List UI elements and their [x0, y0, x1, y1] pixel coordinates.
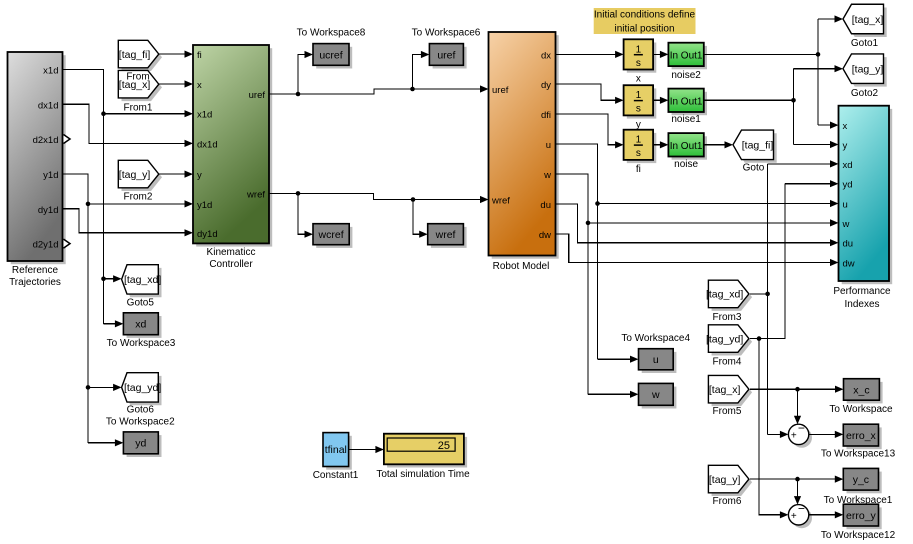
svg-text:dx1d: dx1d	[38, 100, 59, 111]
arrowhead into controller x port	[185, 80, 194, 87]
label From	[126, 71, 149, 82]
from tag From4 [tag_yd]	[706, 325, 752, 356]
arrowhead into Performance Indexes dw port	[830, 259, 839, 266]
label Goto2	[851, 88, 879, 99]
wire y1d from Reference Trajectories (branches to controller y1d, Goto6, To Workspace2)	[63, 174, 187, 443]
svg-text:Robot Model: Robot Model	[493, 261, 550, 272]
label From1	[124, 102, 153, 113]
svg-text:[tag_fi]: [tag_fi]	[119, 49, 151, 61]
svg-text:[tag_xd]: [tag_xd]	[124, 274, 161, 286]
wire yd from From4 (branches to Performance Indexes yd and Sum2 plus input)	[750, 184, 832, 515]
label Kinematicc Controller line1	[207, 247, 256, 258]
label From6	[713, 496, 742, 507]
label Robot Model	[493, 261, 550, 272]
label To Workspace3	[107, 338, 176, 349]
svg-text:w: w	[842, 219, 850, 230]
integrator y	[624, 85, 657, 118]
block Kinematicc Controller	[193, 45, 272, 247]
arrowhead into noise2	[660, 51, 669, 58]
svg-text:w: w	[543, 170, 551, 181]
arrowhead into Robot Model wref port	[480, 196, 489, 203]
subsystem noise2	[668, 43, 707, 70]
svg-text:In Out1: In Out1	[670, 50, 703, 61]
svg-text:xd: xd	[843, 160, 853, 171]
junction w signal	[586, 221, 591, 226]
integrator x	[624, 39, 657, 72]
from tag From6 [tag_y]	[708, 465, 752, 496]
svg-text:1: 1	[636, 44, 642, 55]
svg-text:x1d: x1d	[43, 65, 58, 76]
svg-text:x1d: x1d	[197, 110, 212, 121]
svg-text:dx1d: dx1d	[197, 139, 218, 150]
label Performance Indexes line2	[844, 299, 879, 310]
arrowhead into noise	[660, 141, 669, 148]
svg-text:xd: xd	[135, 319, 146, 331]
label To Workspace13	[821, 449, 896, 460]
svg-text:In Out1: In Out1	[670, 141, 703, 152]
label To Workspace6	[412, 28, 481, 39]
svg-text:[tag_yd]: [tag_yd]	[706, 333, 743, 345]
arrowhead into integrator fi	[615, 141, 624, 148]
display Total simulation Time showing 25	[384, 434, 467, 468]
svg-text:Goto: Goto	[743, 163, 765, 174]
block u To Workspace4	[639, 349, 677, 373]
svg-text:yd: yd	[843, 180, 853, 191]
label Goto	[743, 163, 765, 174]
wire From1 tag_x to controller x	[159, 83, 186, 85]
label From5	[713, 406, 742, 417]
label To Workspace8	[297, 28, 366, 39]
svg-text:noise1: noise1	[671, 114, 701, 125]
svg-text:From1: From1	[124, 102, 153, 113]
junction uref to ucref	[296, 92, 301, 97]
svg-text:dw: dw	[539, 230, 551, 241]
wire dx1d from Reference Trajectories to controller dx1d	[63, 104, 187, 143]
goto tag Goto6 [tag_yd]	[122, 373, 162, 406]
label Total simulation Time	[376, 469, 470, 480]
svg-text:In Out1: In Out1	[670, 96, 703, 107]
svg-text:Goto2: Goto2	[851, 88, 879, 99]
arrowhead into erro_x workspace block	[835, 431, 844, 438]
from tag From5 [tag_x]	[708, 375, 752, 406]
junction wref to wcref	[296, 191, 301, 196]
svg-text:Controller: Controller	[209, 259, 253, 270]
svg-text:dy1d: dy1d	[38, 205, 59, 216]
wire du from Robot Model to Performance Indexes du	[556, 204, 833, 243]
block Performance Indexes	[839, 106, 893, 285]
arrowhead into erro_y workspace block	[835, 511, 844, 518]
svg-text:d2y1d: d2y1d	[33, 240, 59, 251]
label Kinematicc Controller line2	[209, 259, 253, 270]
from tag From [tag_fi]	[118, 40, 162, 71]
junction wref to wref workspace	[411, 197, 416, 202]
junction uref to To Workspace6	[410, 87, 415, 92]
svg-text:Indexes: Indexes	[844, 299, 879, 310]
wire u from Robot Model (branches to Performance Indexes u and To Workspace4 u)	[556, 144, 833, 359]
label To Workspace4	[621, 333, 690, 344]
label Performance Indexes line1	[833, 286, 891, 297]
arrowhead into Goto5 tag	[113, 275, 122, 282]
integrator fi	[624, 130, 657, 163]
svg-text:Goto1: Goto1	[851, 38, 879, 49]
svg-text:wcref: wcref	[318, 229, 344, 241]
svg-text:Initial conditions define: Initial conditions define	[594, 10, 696, 21]
svg-text:wref: wref	[435, 229, 456, 241]
block wref To Workspace5	[428, 224, 467, 248]
arrowhead into Sum1 plus input	[780, 431, 789, 438]
arrowhead into x_c workspace block	[835, 386, 844, 393]
block Robot Model	[489, 32, 559, 259]
label Goto1	[851, 38, 879, 49]
arrowhead into noise1	[660, 97, 669, 104]
junction yd signal	[757, 336, 762, 341]
wire x_c from From5 (branches to x_c workspace and Sum1 minus input)	[750, 389, 837, 418]
label From3	[713, 312, 742, 323]
svg-text:From4: From4	[713, 357, 742, 368]
label Goto6	[127, 405, 155, 416]
wire Sum1 output to erro_x workspace	[809, 433, 837, 435]
subsystem noise1	[668, 89, 707, 116]
junction x signal	[816, 52, 821, 57]
arrowhead into controller y port	[185, 171, 194, 178]
svg-text:tfinal: tfinal	[325, 444, 347, 456]
svg-text:initial position: initial position	[614, 23, 674, 34]
arrowhead into wref workspace block	[419, 231, 428, 238]
label fi under integrator fi	[636, 164, 641, 175]
svg-text:uref: uref	[437, 49, 455, 61]
svg-text:x: x	[636, 74, 641, 85]
arrowhead into Performance Indexes xd port	[830, 160, 839, 167]
svg-text:25: 25	[438, 440, 450, 452]
svg-text:From5: From5	[713, 406, 742, 417]
junction y1d to controller	[86, 202, 91, 207]
unconnected output port d2y1d	[64, 239, 71, 248]
label From4	[713, 357, 742, 368]
svg-text:fi: fi	[197, 50, 202, 61]
svg-text:To Workspace13: To Workspace13	[821, 449, 896, 460]
from tag From1 [tag_x]	[118, 70, 162, 101]
svg-text:dw: dw	[843, 259, 855, 270]
svg-text:s: s	[636, 148, 641, 159]
svg-text:u: u	[843, 200, 848, 211]
from tag From3 [tag_xd]	[706, 280, 752, 311]
arrowhead into Performance Indexes y port	[830, 141, 839, 148]
svg-text:s: s	[636, 104, 641, 115]
block Reference Trajectories	[8, 52, 66, 264]
svg-text:du: du	[540, 200, 551, 211]
wire dw from Robot Model to Performance Indexes dw	[556, 234, 833, 263]
svg-text:noise2: noise2	[671, 70, 701, 81]
svg-text:1: 1	[636, 135, 642, 146]
svg-text:1: 1	[636, 90, 642, 101]
svg-text:To Workspace12: To Workspace12	[821, 530, 896, 541]
svg-text:[tag_x]: [tag_x]	[852, 14, 884, 26]
arrowhead into integrator y	[615, 97, 624, 104]
svg-text:dy1d: dy1d	[197, 229, 218, 240]
label To Workspace2	[106, 417, 175, 428]
svg-text:noise: noise	[674, 159, 698, 170]
junction y_c signal	[795, 477, 800, 482]
label x under integrator x	[636, 74, 641, 85]
arrowhead into Total simulation Time display	[375, 446, 384, 453]
block x_c To Workspace	[844, 379, 883, 404]
wire w from Robot Model (branches to Performance Indexes w and To Workspace4 w)	[556, 174, 833, 394]
arrowhead into Robot Model uref port	[480, 85, 489, 92]
label y under integrator y	[636, 120, 641, 131]
svg-text:−: −	[798, 502, 805, 516]
svg-text:erro_x: erro_x	[846, 430, 877, 442]
svg-text:To Workspace6: To Workspace6	[412, 28, 481, 39]
block yd To Workspace2	[123, 432, 161, 457]
wire wref from controller to Robot Model (branches to wcref, wref workspace)	[269, 193, 482, 234]
block erro_x To Workspace13	[843, 424, 881, 449]
arrowhead into Goto tag_fi	[725, 141, 734, 148]
svg-text:[tag_y]: [tag_y]	[709, 474, 741, 486]
svg-text:s: s	[636, 58, 641, 69]
goto tag Goto1 [tag_x]	[843, 4, 887, 37]
wire From tag_fi to controller fi	[159, 53, 186, 55]
arrowhead into Performance Indexes yd port	[830, 180, 839, 187]
svg-text:y1d: y1d	[197, 200, 212, 211]
svg-text:From6: From6	[713, 496, 742, 507]
wire integrator fi to noise	[653, 144, 662, 146]
svg-text:Trajectories: Trajectories	[9, 277, 61, 288]
wire dx from Robot Model to integrator x	[556, 53, 618, 55]
svg-text:[tag_xd]: [tag_xd]	[706, 289, 743, 301]
svg-text:+: +	[791, 511, 797, 522]
svg-text:y: y	[843, 141, 848, 152]
arrowhead into integrator x	[615, 51, 624, 58]
block uref To Workspace6	[429, 44, 466, 69]
label Reference Trajectories line1	[12, 265, 59, 276]
svg-text:erro_y: erro_y	[846, 510, 877, 522]
block ucref To Workspace8	[313, 44, 352, 69]
svg-text:To Workspace2: To Workspace2	[106, 417, 175, 428]
arrowhead into uref workspace block	[421, 51, 430, 58]
unconnected output port d2x1d	[64, 135, 71, 144]
from tag From2 [tag_y]	[118, 160, 162, 191]
wire integrator y to noise1	[653, 99, 662, 101]
svg-text:fi: fi	[636, 164, 641, 175]
arrowhead into controller fi port	[185, 51, 194, 58]
wire xd from From3 (branches to Performance Indexes xd and Sum1 plus input)	[750, 164, 832, 435]
arrowhead into Performance Indexes du port	[830, 239, 839, 246]
annotation Initial conditions define initial position	[594, 8, 696, 34]
arrowhead into Sum1 minus input	[794, 416, 801, 425]
svg-text:To Workspace4: To Workspace4	[621, 333, 690, 344]
svg-text:Goto5: Goto5	[127, 297, 155, 308]
junction x_c signal	[795, 387, 800, 392]
wire x1d from Reference Trajectories (branches to controller x1d, Goto5, To Workspace3)	[63, 69, 187, 323]
arrowhead into u workspace block	[630, 356, 639, 363]
arrowhead into controller x1d port	[185, 110, 194, 117]
svg-text:wref: wref	[491, 196, 510, 207]
arrowhead into xd To Workspace3	[115, 320, 124, 327]
svg-text:ucref: ucref	[319, 49, 342, 61]
arrowhead into w workspace block	[630, 391, 639, 398]
constant Constant1 tfinal	[323, 433, 352, 470]
sum Sum1 (xd minus x_c)	[788, 421, 812, 448]
arrowhead into yd To Workspace2	[115, 439, 124, 446]
arrowhead into y_c workspace block	[835, 476, 844, 483]
svg-text:Goto6: Goto6	[127, 405, 155, 416]
wire y_c from From6 (branches to y_c workspace and Sum2 minus input)	[750, 479, 837, 498]
svg-text:x_c: x_c	[853, 384, 869, 396]
label Constant1	[313, 470, 359, 481]
block xd To Workspace3	[123, 313, 161, 338]
svg-text:y1d: y1d	[43, 170, 58, 181]
block erro_y To Workspace12	[843, 504, 881, 529]
label From2	[124, 192, 153, 203]
svg-text:From: From	[126, 71, 149, 82]
svg-text:To Workspace8: To Workspace8	[297, 28, 366, 39]
junction y signal	[791, 98, 796, 103]
wire integrator x to noise2	[653, 53, 662, 55]
wire Sum2 output to erro_y workspace	[809, 514, 837, 516]
label Goto5	[127, 297, 155, 308]
svg-text:[tag_y]: [tag_y]	[119, 169, 151, 181]
svg-text:To Workspace3: To Workspace3	[107, 338, 176, 349]
svg-text:[tag_yd]: [tag_yd]	[124, 382, 161, 394]
arrowhead into Sum2 minus input	[794, 496, 801, 505]
label To Workspace12	[821, 530, 896, 541]
block w To Workspace4b	[639, 383, 677, 408]
svg-text:wref: wref	[246, 189, 265, 200]
goto tag Goto5 [tag_xd]	[122, 265, 162, 298]
arrowhead into wcref block	[305, 231, 314, 238]
block wcref To Workspace7	[313, 224, 352, 248]
svg-text:w: w	[651, 389, 660, 401]
svg-text:[tag_x]: [tag_x]	[709, 384, 741, 396]
arrowhead into Performance Indexes x port	[830, 122, 839, 129]
wire dy from Robot Model to integrator y	[556, 84, 618, 100]
svg-text:dfi: dfi	[541, 110, 551, 121]
svg-text:[tag_y]: [tag_y]	[852, 64, 884, 76]
arrowhead into ucref block	[305, 51, 314, 58]
junction xd signal	[765, 292, 770, 297]
svg-text:Kinematicc: Kinematicc	[207, 247, 256, 258]
wire tfinal Constant1 to display	[349, 449, 377, 451]
label noise1 under subsystem noise1	[671, 114, 701, 125]
svg-text:Performance: Performance	[833, 286, 891, 297]
wire fi signal from noise to Goto tag_fi	[704, 144, 727, 146]
svg-text:u: u	[653, 354, 659, 366]
arrowhead into controller y1d port	[185, 200, 194, 207]
svg-text:−: −	[798, 421, 805, 435]
svg-text:y_c: y_c	[853, 474, 869, 486]
svg-text:Total simulation Time: Total simulation Time	[376, 469, 470, 480]
svg-text:To Workspace: To Workspace	[829, 404, 893, 415]
svg-text:[tag_fi]: [tag_fi]	[742, 140, 774, 152]
junction u signal	[595, 201, 600, 206]
svg-text:From2: From2	[124, 192, 153, 203]
wire dfi from Robot Model to integrator fi	[556, 114, 618, 145]
svg-text:d2x1d: d2x1d	[33, 135, 59, 146]
svg-text:y: y	[197, 170, 202, 181]
svg-text:dx: dx	[541, 50, 551, 61]
arrowhead into controller dx1d port	[185, 140, 194, 147]
arrowhead into Performance Indexes w port	[830, 219, 839, 226]
label noise under subsystem noise	[674, 159, 698, 170]
wire From2 tag_y to controller y	[159, 173, 186, 175]
sum Sum2 (yd minus y_c)	[788, 502, 812, 529]
label Reference Trajectories line2	[9, 277, 61, 288]
svg-text:x: x	[843, 121, 848, 132]
junction y1d to Goto6	[86, 385, 91, 390]
label To Workspace1	[824, 495, 893, 506]
svg-text:uref: uref	[492, 85, 509, 96]
label noise2 under subsystem noise2	[671, 70, 701, 81]
arrowhead into Performance Indexes u port	[830, 200, 839, 207]
arrowhead into Goto1 tag	[835, 15, 844, 22]
wire dy1d from Reference Trajectories to controller dy1d	[63, 209, 187, 233]
arrowhead into Goto2 tag	[835, 65, 844, 72]
arrowhead into controller dy1d port	[185, 229, 194, 236]
svg-text:From3: From3	[713, 312, 742, 323]
wire y signal from noise1 (branches to Goto2 and Performance Indexes y)	[704, 69, 836, 145]
svg-text:u: u	[546, 140, 551, 151]
junction x1d to controller	[101, 111, 106, 116]
label To Workspace	[829, 404, 893, 415]
svg-text:x: x	[197, 80, 202, 91]
wire x signal from noise2 (branches to Goto1 and Performance Indexes x)	[704, 19, 836, 125]
subsystem noise	[668, 133, 707, 160]
block y_c To Workspace1	[843, 468, 881, 493]
svg-text:+: +	[791, 431, 797, 442]
svg-text:du: du	[843, 239, 854, 250]
svg-text:uref: uref	[249, 90, 266, 101]
wire uref from controller to Robot Model (branches to ucref, uref workspace)	[269, 55, 482, 95]
arrowhead into Sum2 plus input	[780, 511, 789, 518]
arrowhead into Goto6 tag	[113, 384, 122, 391]
svg-text:yd: yd	[135, 438, 146, 450]
junction x1d to Goto5	[101, 277, 106, 282]
svg-text:Constant1: Constant1	[313, 470, 359, 481]
goto tag Goto2 [tag_y]	[843, 54, 887, 87]
svg-text:Reference: Reference	[12, 265, 59, 276]
svg-text:dy: dy	[541, 80, 551, 91]
goto tag Goto [tag_fi]	[733, 130, 777, 163]
